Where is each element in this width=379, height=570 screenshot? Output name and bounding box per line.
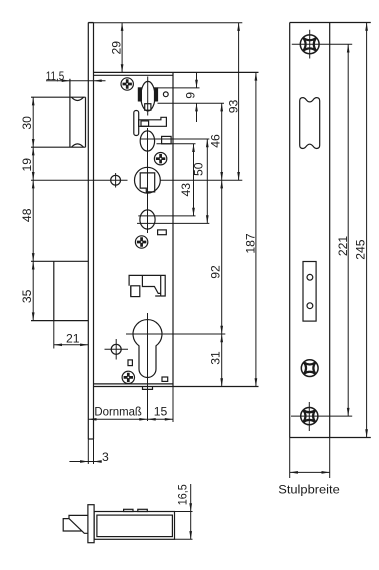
stulpbreite extension lines bbox=[290, 438, 330, 479]
main hub (nut) bbox=[135, 167, 161, 193]
torx screw top bbox=[300, 35, 319, 54]
dornmass dim line bbox=[88, 418, 173, 420]
svg-text:46: 46 bbox=[208, 134, 222, 148]
case right edge bbox=[172, 72, 174, 386]
187 bbox=[255, 72, 258, 80]
deadbolt thrown (left of plate) bbox=[31, 260, 88, 262]
upper small follower oval bbox=[140, 131, 154, 151]
svg-text:43: 43 bbox=[179, 183, 193, 197]
dim 16.5 ext lines bbox=[175, 512, 193, 540]
35 bbox=[32, 261, 35, 269]
long vertical centerline bbox=[147, 128, 149, 233]
torx top crosshair bbox=[292, 30, 352, 59]
svg-text:48: 48 bbox=[20, 208, 34, 222]
svg-text:50: 50 bbox=[192, 162, 206, 176]
21 bbox=[54, 343, 62, 346]
latch tail pin bbox=[163, 92, 168, 97]
dim 43 line bbox=[193, 144, 195, 216]
hub square hole bbox=[140, 173, 155, 192]
change lever stem bbox=[134, 111, 139, 136]
case inner bbox=[97, 515, 172, 537]
3 outside bbox=[80, 460, 88, 463]
slot line (43 dim) bbox=[157, 143, 196, 145]
svg-text:15: 15 bbox=[154, 405, 168, 419]
small rect right of PZ bbox=[162, 377, 168, 381]
92 bbox=[220, 180, 223, 188]
screw D bbox=[122, 371, 134, 383]
dim 16.5 line bbox=[190, 484, 192, 539]
screw C bbox=[135, 236, 147, 248]
dim 11.5 line bbox=[46, 80, 106, 82]
faceplate extension lines to 3-dim bbox=[87, 439, 89, 464]
fixing hole 2 with crosshair bbox=[111, 344, 121, 354]
dim 21 line bbox=[54, 344, 89, 346]
dim 29 line bbox=[121, 23, 123, 73]
change lever arm bbox=[139, 117, 167, 126]
lower follower chord upper (43 dim) bbox=[138, 215, 195, 217]
plate right edge bbox=[329, 23, 331, 438]
93 bbox=[237, 23, 240, 31]
plate-top extension line bbox=[88, 22, 242, 24]
upper follower chord line (50 dim) bbox=[140, 138, 209, 140]
dim 3 line bbox=[69, 461, 101, 463]
plate left edge bbox=[289, 23, 291, 438]
case top outer edge (extends to 187 dim) bbox=[94, 71, 259, 73]
stulpbreite dim line bbox=[290, 471, 330, 473]
follower spring clip left bbox=[138, 88, 141, 101]
case bottom tab notch bbox=[143, 387, 153, 390]
lower follower bbox=[140, 210, 155, 229]
screw B bbox=[154, 153, 166, 165]
hub centerline left bbox=[31, 179, 128, 181]
svg-text:11,5: 11,5 bbox=[46, 69, 65, 83]
small slot below bbox=[158, 230, 167, 235]
hub centerline right bbox=[161, 179, 243, 181]
change lever square bbox=[141, 121, 149, 126]
15 bbox=[148, 418, 156, 421]
profile cylinder hole (PZ) bbox=[133, 320, 162, 378]
dim 187 line bbox=[255, 72, 257, 386]
svg-text:245: 245 bbox=[354, 239, 368, 260]
dim 9 line bbox=[196, 72, 198, 122]
rect hole bottom bbox=[307, 303, 313, 309]
deadbolt front ext down (21 dim) bbox=[53, 321, 55, 349]
svg-text:Dornmaß: Dornmaß bbox=[94, 405, 141, 419]
43 bbox=[192, 144, 195, 152]
PZ vertical centerline bbox=[147, 313, 149, 421]
latch opening bbox=[300, 98, 320, 149]
46 bbox=[220, 103, 223, 111]
dornmass bbox=[88, 418, 96, 421]
case bottom outer edge (extends to dims) bbox=[94, 386, 259, 388]
crosshair v bbox=[115, 173, 117, 188]
latch tail bar bottom bbox=[158, 102, 225, 104]
dim 245 line bbox=[366, 23, 368, 438]
case top inner edge bbox=[94, 74, 174, 76]
svg-text:187: 187 bbox=[243, 233, 257, 254]
dim 30/19/48/35 stack bbox=[32, 97, 34, 320]
upper follower slot bbox=[162, 136, 172, 143]
latch base edge bbox=[85, 97, 87, 147]
48 bbox=[32, 180, 35, 188]
torx bottom crosshair bbox=[291, 402, 352, 431]
middle rectangle bbox=[303, 262, 316, 322]
latch wedge bbox=[63, 515, 88, 533]
case right edge extension down (15 dim) bbox=[172, 387, 174, 423]
svg-text:19: 19 bbox=[20, 158, 34, 172]
slide block bbox=[129, 275, 165, 296]
case bottom inner edge bbox=[94, 383, 174, 385]
torx screw middle bbox=[301, 360, 318, 377]
faceplate top cap bbox=[88, 22, 93, 24]
svg-text:Stulpbreite: Stulpbreite bbox=[278, 482, 340, 496]
follower spring clip right bbox=[155, 88, 158, 101]
latch bolt front face bbox=[69, 79, 71, 147]
31 bbox=[220, 334, 223, 342]
plate section bbox=[88, 505, 94, 543]
arrowheads right view bbox=[290, 23, 368, 474]
rect hole top bbox=[307, 274, 313, 280]
30 bbox=[32, 97, 35, 105]
svg-text:93: 93 bbox=[226, 100, 240, 114]
faceplate (Stulp) front edge bbox=[87, 23, 89, 440]
latch bolt bottom edge bbox=[31, 146, 86, 148]
svg-text:92: 92 bbox=[209, 265, 223, 279]
latch bolt top edge bbox=[31, 96, 86, 98]
plate top edge (extends to 245 dim) bbox=[290, 22, 371, 24]
svg-text:221: 221 bbox=[336, 236, 350, 257]
faceplate bottom cap bbox=[88, 438, 93, 440]
follower bottom tab bbox=[145, 104, 151, 111]
latch top arc bbox=[72, 97, 84, 100]
screw A bbox=[121, 78, 133, 90]
dim 50 line bbox=[206, 139, 208, 223]
faceplate back edge / case front bbox=[93, 23, 95, 440]
PZ horizontal centerline bbox=[126, 333, 225, 335]
latch bottom arc bbox=[72, 144, 84, 147]
dim 46/92/31 line bbox=[221, 103, 223, 386]
11.5 outside arrows bbox=[62, 79, 70, 82]
svg-text:9: 9 bbox=[184, 92, 198, 99]
svg-text:35: 35 bbox=[20, 289, 34, 303]
small rect left of PZ bbox=[128, 360, 132, 366]
lower follower chord lower (50 dim) bbox=[137, 222, 209, 224]
torx screw bottom bbox=[301, 408, 318, 425]
svg-text:16,5: 16,5 bbox=[175, 484, 189, 505]
follower vertical centerline bbox=[147, 77, 149, 116]
fixing hole with crosshair bbox=[111, 175, 121, 185]
svg-text:30: 30 bbox=[20, 116, 34, 130]
svg-text:21: 21 bbox=[66, 332, 80, 346]
50 bbox=[206, 139, 209, 147]
case outer bbox=[94, 512, 174, 540]
latch tail bar top bbox=[158, 87, 200, 89]
plate bottom edge (extends to 245 dim) bbox=[290, 437, 371, 439]
svg-text:3: 3 bbox=[102, 450, 109, 464]
svg-text:29: 29 bbox=[109, 41, 123, 55]
arrowheads left view bbox=[32, 23, 257, 463]
top tabs bbox=[124, 509, 133, 511]
19 bbox=[32, 147, 35, 155]
dim 93 line bbox=[238, 23, 240, 181]
svg-text:31: 31 bbox=[208, 351, 222, 365]
29 bbox=[121, 23, 124, 31]
latch follower oval bbox=[141, 81, 155, 111]
dim 221 line bbox=[347, 44, 349, 416]
9 outside bbox=[195, 80, 198, 88]
